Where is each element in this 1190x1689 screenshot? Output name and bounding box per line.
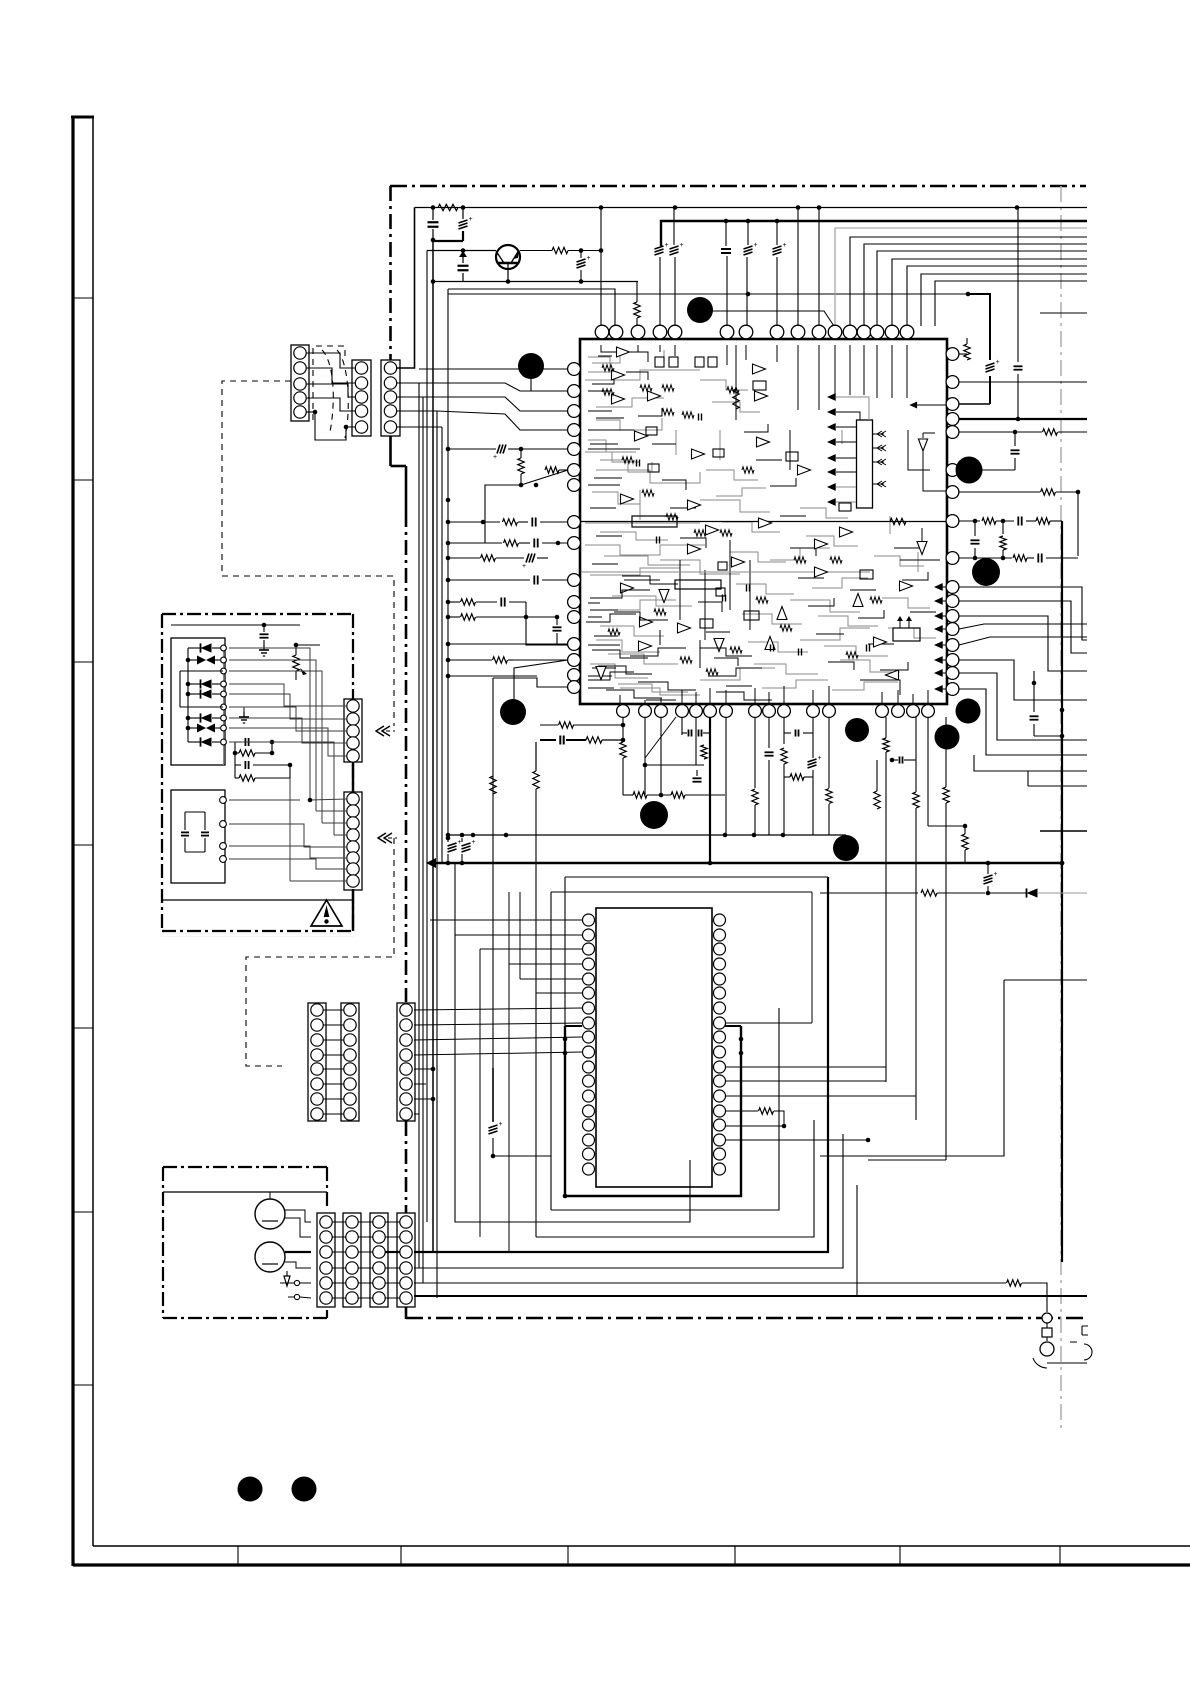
U2 left pin wires: [430, 919, 582, 921]
capacitor electrolytic C: [655, 246, 664, 249]
wire top rail: [415, 207, 1088, 209]
RC cluster: [235, 741, 241, 743]
right staircase bus: [959, 587, 1087, 640]
svg-text:+: +: [994, 871, 998, 878]
diagonal: [645, 717, 676, 758]
connector P10: [343, 1213, 361, 1307]
wire elbow: [434, 240, 463, 242]
capacitor electrolytic pair: [447, 838, 449, 842]
svg-text:+: +: [996, 359, 1000, 366]
capacitor electrolytic C: [670, 246, 679, 249]
F to U2 wires: [414, 1008, 582, 1010]
IC internal amp down: [923, 432, 935, 434]
key matrix box: [171, 638, 225, 765]
wire bus verticals left: [418, 383, 420, 1268]
connector P5: [344, 792, 362, 890]
wire: [600, 208, 602, 327]
jack J2: [255, 1242, 285, 1272]
wire y470: [959, 469, 1015, 471]
svg-text:+: +: [493, 454, 497, 461]
ecap at left: [492, 1068, 494, 1122]
lower key box: [171, 790, 225, 883]
capacitor electrolytic: [448, 448, 496, 450]
right pin nets: [959, 353, 967, 355]
svg-text:+: +: [818, 755, 822, 762]
wire y893 w diode: [820, 892, 918, 894]
svg-text:+: +: [680, 242, 684, 249]
IC U1 internal circuitry: [588, 357, 610, 372]
thick rail y863: [434, 862, 1062, 865]
res cap to pin: [448, 601, 460, 603]
wire: [568, 250, 601, 252]
svg-text:+: +: [472, 839, 476, 846]
capacitor electrolytic C: [459, 220, 468, 223]
wire: [797, 208, 799, 327]
wire: [725, 1153, 802, 1155]
wire pin nets left of IC: [419, 368, 568, 370]
IC internal long net: [581, 521, 946, 523]
transistor Q1: [496, 245, 520, 269]
connector P4: [344, 699, 362, 762]
P6-P7 links: [323, 1009, 344, 1011]
wire top: [171, 624, 300, 626]
thick seg y740: [540, 739, 556, 741]
gray exit: [1070, 892, 1087, 894]
wire: [516, 250, 552, 252]
reference bullets: [518, 353, 544, 379]
wire elbow right: [820, 979, 1004, 981]
loop lines bottom: [551, 1008, 779, 1210]
IC internal box: [893, 628, 920, 641]
thick y419: [959, 418, 1087, 420]
diode D: [1027, 888, 1038, 897]
capacitor electrolytic C: [773, 246, 782, 249]
wires P3 riser: [397, 208, 415, 369]
connector P2: [352, 360, 371, 436]
right cluster resistors: [874, 791, 880, 809]
wire: [269, 1192, 271, 1199]
resistor R: [552, 247, 568, 253]
diode pair D: [197, 656, 206, 665]
svg-text:+: +: [499, 1121, 503, 1128]
dashed harness outline 2: [246, 838, 394, 1066]
wire y294: [448, 293, 968, 295]
resistor-cap pair: [448, 521, 500, 523]
wire stub y313: [1040, 312, 1087, 314]
cut connector stub: [1082, 1326, 1088, 1335]
wire y492 + R: [959, 491, 1040, 493]
IC internal delay line: [632, 516, 677, 527]
IC internal blocks: [655, 357, 664, 367]
main board dash-dot outline: [390, 185, 1086, 188]
IC internal op-amps: [617, 347, 630, 357]
capacitors: [184, 812, 186, 830]
IC internal amp: [917, 542, 927, 555]
links G-H-I-J: [332, 1221, 346, 1223]
routing loops: [565, 876, 828, 878]
resistor: [518, 458, 524, 474]
wire y558 net: [959, 557, 1012, 559]
terminal T1: [1042, 1313, 1052, 1323]
svg-text:+: +: [469, 216, 473, 223]
capacitor electrolytic C: [577, 259, 586, 262]
ground: [243, 712, 245, 717]
thick vert x990: [968, 294, 990, 360]
IC U2 body: [596, 908, 712, 1187]
IC U1 right pins: [946, 348, 959, 361]
harness wires P1-P2: [306, 353, 355, 368]
IC internal register block: [857, 420, 873, 508]
resistor left: [490, 776, 496, 794]
wire y289: [448, 289, 615, 326]
wire thick top: [661, 221, 1087, 246]
capacitor: [448, 579, 530, 581]
IC U2 left pins: [583, 914, 595, 926]
IO block dash-dot outline: [163, 1166, 327, 1168]
capacitor electrolytic C: [744, 246, 753, 249]
capacitor C: [461, 248, 466, 253]
wire 644: [448, 643, 568, 645]
wires key matrix: [187, 648, 189, 742]
capacitor C: [721, 248, 731, 250]
connector P8: [397, 1003, 415, 1121]
capacitor C: [428, 221, 439, 223]
IC U2 right pins: [714, 914, 726, 926]
IC internal caps/resistors scatter: [602, 365, 614, 371]
wire x1018: [1017, 207, 1019, 362]
wire y432 + R: [959, 431, 1042, 433]
connector P11: [370, 1213, 388, 1307]
IC U1 left pins: [568, 363, 581, 376]
svg-text:+: +: [458, 839, 462, 846]
res caps cluster under IC: [540, 724, 558, 726]
wire y521 net: [959, 520, 980, 522]
wire bullet: [712, 311, 834, 326]
wire: [818, 208, 820, 327]
svg-text:+: +: [587, 255, 591, 262]
diodes D: [201, 643, 212, 652]
dashed harness outline: [222, 381, 394, 726]
key block dash-dot outline: [162, 614, 353, 935]
block divider: [162, 899, 353, 901]
resistor R: [438, 204, 458, 210]
thick vertical bus x1062: [1061, 521, 1063, 1262]
switch S1: [284, 1276, 290, 1286]
svg-text:+: +: [783, 242, 787, 249]
cap below: [1013, 430, 1018, 435]
resistor diag: [448, 659, 492, 661]
wire bus fan top right: [835, 228, 1087, 326]
page border frame: [71, 116, 74, 1566]
stub wires: [563, 1037, 568, 1042]
inner line: [163, 1191, 327, 1193]
wire: [430, 757, 448, 759]
wire long rail y835: [448, 834, 846, 836]
key contacts: [223, 648, 225, 765]
connector P6: [308, 1003, 326, 1121]
wire emitter: [507, 263, 509, 281]
IC U1 bottom pins: [617, 705, 630, 718]
jack J1: [255, 1199, 285, 1229]
verticals into loops: [508, 892, 510, 1252]
resistor ecap row: [448, 557, 480, 559]
warning triangle: [311, 900, 342, 926]
U2 right pin wires: [725, 1066, 886, 1068]
exit stubs right: [1028, 785, 1087, 787]
wire: [492, 699, 494, 776]
wire base: [427, 250, 496, 252]
wire: [493, 678, 568, 687]
svg-text:+: +: [754, 242, 758, 249]
wire: [849, 207, 851, 228]
capacitor: [553, 626, 562, 628]
resistor: [725, 1110, 758, 1112]
gray dash-dot section divider: [1060, 186, 1062, 1432]
thick bracket lower IC: [565, 1026, 741, 1196]
resistor R: [634, 302, 640, 318]
wire diag exits: [959, 624, 1087, 629]
resistor: [533, 771, 539, 789]
wire vertical bus x448: [447, 289, 449, 838]
wire: [472, 820, 474, 835]
connector P7: [341, 1003, 359, 1121]
connector P9: [317, 1213, 335, 1307]
dashed cable bundle at connectors: [313, 346, 345, 420]
IC internal resistor: [733, 389, 739, 409]
capacitor + gnd: [260, 633, 269, 635]
IC U1 body: [580, 339, 947, 704]
connector P12: [397, 1213, 415, 1307]
wire: [856, 717, 858, 742]
key block harness wires: [229, 648, 310, 800]
wire stub: [1040, 830, 1087, 832]
svg-text:+: +: [522, 563, 526, 570]
connector P3: [381, 360, 400, 436]
wire y281: [433, 281, 638, 283]
wire from pin bottoms: [622, 717, 624, 740]
IC internal dense lower-left: [590, 590, 650, 598]
resistor arrowed: [293, 655, 299, 671]
wire box: [448, 485, 485, 516]
cap on bus: [1032, 681, 1037, 686]
connector P1: [291, 345, 309, 421]
IC U1 top pins: [595, 325, 609, 339]
jack wires: [285, 1210, 311, 1222]
bullet tag: [530, 366, 532, 391]
svg-text:+: +: [665, 242, 669, 249]
